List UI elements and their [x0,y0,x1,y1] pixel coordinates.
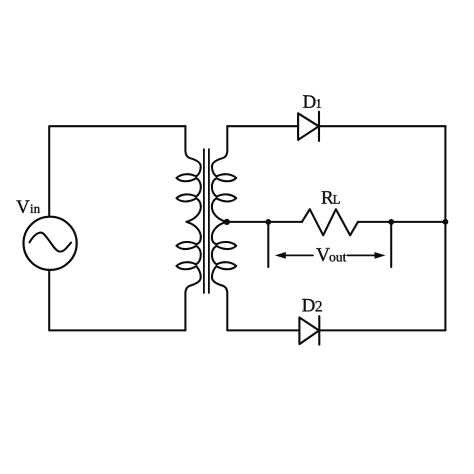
wire center tap to RL [227,221,302,223]
wire left loop bottom (Vin to primary bottom) [49,270,185,330]
wire vout right hanger [390,222,392,267]
label Vin [16,201,40,214]
wire right bus [444,126,446,330]
wire secondary top to D1 [227,125,298,127]
label Vout [316,248,346,261]
vout left arrowhead [275,252,286,259]
diode D1 [298,112,319,141]
transformer core [204,149,209,293]
vout right arrowhead [375,252,386,259]
sine wave inside source [30,233,72,252]
label RL [322,191,340,203]
resistor RL [302,209,358,235]
junction dot center tap [224,219,230,225]
junction dot middle wire at right bus [443,219,449,225]
label D1 [303,95,321,107]
wire vout left hanger [267,222,269,267]
junction dot left of RL [265,219,271,225]
wire D1 to right bus [319,125,445,127]
wire secondary bottom to D2 [227,329,299,331]
wire left loop top (Vin to primary top) [49,126,185,216]
vout right arrow shaft [348,254,376,256]
diode D2 [299,316,319,344]
transformer secondary winding [212,126,236,330]
wire D2 to bottom-right corner [319,329,445,331]
vout left arrow shaft [285,254,313,256]
label D2 [302,299,322,311]
transformer primary winding [177,126,201,330]
ac source Vin [23,217,76,270]
wire RL to right bus [358,221,445,223]
junction dot right of RL [388,219,394,225]
